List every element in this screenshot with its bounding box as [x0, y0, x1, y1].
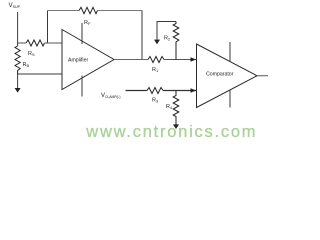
watermark www.cntronics.com: [85, 123, 257, 141]
resistor RS: [26, 40, 45, 57]
pin comparator V+: [229, 42, 231, 61]
wire RB bottom to amp input: [18, 73, 62, 75]
wire VSUP vertical: [17, 12, 19, 46]
wire VCLAMP to R3: [126, 90, 148, 92]
resistor RF: [79, 7, 98, 26]
pin amp V+: [81, 23, 83, 44]
wire divider tap to RS: [18, 42, 26, 44]
svg-text:R3: R3: [152, 98, 159, 104]
pin amp V-: [81, 76, 83, 97]
wire feedback left vertical: [47, 11, 49, 44]
svg-text:R4: R4: [166, 104, 173, 110]
svg-text:VCLAMP(L): VCLAMP(L): [101, 93, 120, 99]
comparator U2: [197, 44, 258, 108]
svg-text:R1: R1: [152, 67, 159, 73]
ground arrow under R4: [173, 124, 179, 129]
wire amp output: [114, 59, 148, 61]
arrowhead comparator plus input: [191, 57, 197, 62]
resistor R3: [147, 88, 163, 104]
wire R3 to comparator: [163, 90, 197, 92]
node VCLAMP label: [101, 93, 120, 99]
svg-text:RS: RS: [28, 51, 35, 57]
svg-text:RF: RF: [84, 20, 91, 26]
resistor R2: [164, 22, 179, 60]
wire RS to amp input: [45, 42, 63, 44]
resistor RB: [15, 46, 29, 74]
resistor R1: [148, 57, 164, 74]
wire R2 top hook: [157, 22, 176, 41]
svg-text:VSUP: VSUP: [9, 2, 21, 9]
svg-text:www.cntronics.com: www.cntronics.com: [85, 123, 257, 141]
wire comparator output: [257, 75, 268, 77]
svg-text:R2: R2: [164, 36, 171, 42]
wire feedback top horizontal right: [98, 10, 143, 12]
ground arrow left: [15, 74, 21, 93]
pin comparator V-: [229, 90, 231, 108]
svg-text:Amplifier: Amplifier: [68, 58, 88, 64]
svg-text:Comparator: Comparator: [206, 72, 234, 78]
svg-text:RB: RB: [23, 62, 30, 68]
op-amp U1 Amplifier: [62, 30, 114, 90]
wire feedback top horizontal left: [48, 10, 80, 12]
arrowhead comparator minus input: [191, 88, 197, 93]
wire R1 to comparator: [164, 59, 197, 61]
resistor R4: [166, 91, 179, 126]
node VSUP label: [9, 2, 21, 9]
arrow down at R2 hook: [154, 40, 160, 45]
wire feedback right vertical: [141, 11, 143, 60]
